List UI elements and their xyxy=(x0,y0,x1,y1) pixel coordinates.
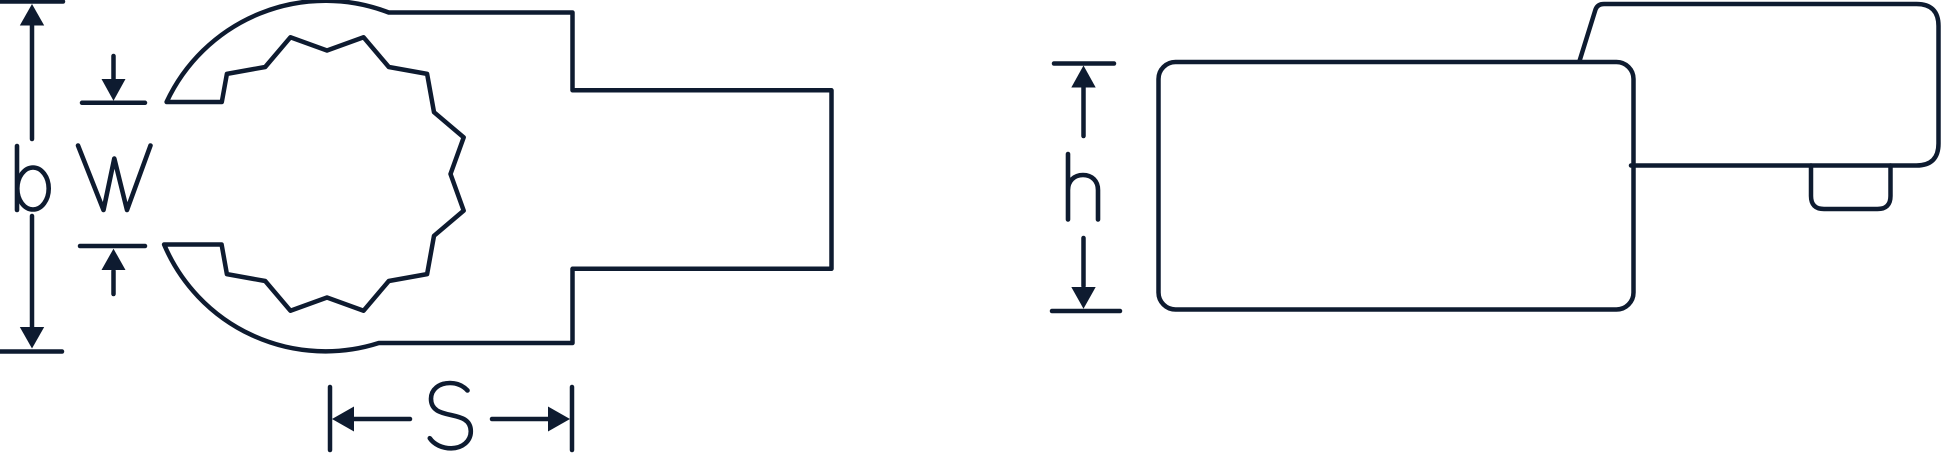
dimension h: leader shafts xyxy=(1081,87,1086,136)
arrow h top xyxy=(1071,66,1095,88)
ratchet head outline (side view) xyxy=(1580,4,1939,166)
arrow S left xyxy=(332,407,354,432)
dimension W: ticks xyxy=(82,101,145,106)
arrow b top xyxy=(20,4,44,26)
dimension h: ticks xyxy=(1054,61,1114,66)
arrow h bottom xyxy=(1071,287,1095,309)
letter S xyxy=(430,383,471,448)
arrow W top xyxy=(102,79,126,101)
letter W xyxy=(78,146,151,211)
arrow S right xyxy=(548,407,570,432)
side view main body (rounded rectangle) xyxy=(1159,62,1634,310)
letter b xyxy=(15,146,20,210)
letter h xyxy=(1068,154,1098,220)
arrowheads xyxy=(20,4,1096,432)
ring insert body outline (front view) xyxy=(164,1,831,352)
dimension W: leader shafts xyxy=(111,56,116,79)
dimension S: shafts xyxy=(352,417,410,422)
dimension S: ticks xyxy=(328,387,333,450)
dimension letters drawn as monoline strokes xyxy=(17,146,1098,449)
square drive tang xyxy=(1811,166,1891,210)
arrow W bottom xyxy=(102,249,126,270)
dimension b: leader shafts xyxy=(30,24,35,139)
dimension b: extension ticks xyxy=(0,0,63,4)
arrow b bottom xyxy=(20,327,44,349)
